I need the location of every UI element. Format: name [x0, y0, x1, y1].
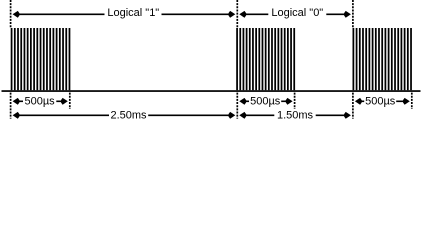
dimension arrow: 500us burst 2 width — [244, 100, 288, 102]
svg-text:500µs: 500µs — [365, 95, 396, 107]
dimension arrow: Logical "0" span — [244, 13, 346, 15]
svg-text:2.50ms: 2.50ms — [110, 110, 147, 122]
guide line D (end burst 2) — [294, 93, 296, 109]
signal baseline — [2, 90, 421, 92]
guide line C (start burst 2) upper — [236, 0, 238, 28]
dimension arrow: Logical "1" span — [18, 13, 231, 15]
svg-text:500µs: 500µs — [250, 95, 281, 107]
pulse burst 3 (next bit mark, 500us carrier) — [353, 28, 412, 90]
guide line E (start burst 3) upper — [352, 0, 354, 28]
dimension arrow: 1.50ms bit period — [244, 114, 346, 116]
guide line E (start burst 3) lower — [352, 93, 354, 119]
guide line A (start burst 1) lower — [10, 93, 12, 119]
svg-text:500µs: 500µs — [24, 95, 55, 107]
guide line A (start burst 1) upper — [10, 0, 12, 28]
svg-text:Logical "0": Logical "0" — [271, 7, 323, 19]
svg-text:Logical "1": Logical "1" — [107, 7, 159, 19]
pulse burst 1 (Logical 1 mark, 500us carrier) — [11, 28, 71, 90]
svg-text:1.50ms: 1.50ms — [277, 110, 314, 122]
guide line C (start burst 2) lower — [236, 93, 238, 119]
dimension arrow: 2.50ms bit period — [18, 114, 231, 116]
dimension arrow: 500us burst 3 width — [360, 100, 405, 102]
dimension arrow: 500us burst 1 width — [18, 100, 64, 102]
guide line B (end burst 1) — [69, 93, 71, 109]
guide line F (end burst 3) — [411, 93, 413, 109]
pulse burst 2 (Logical 0 mark, 500us carrier) — [236, 28, 295, 90]
